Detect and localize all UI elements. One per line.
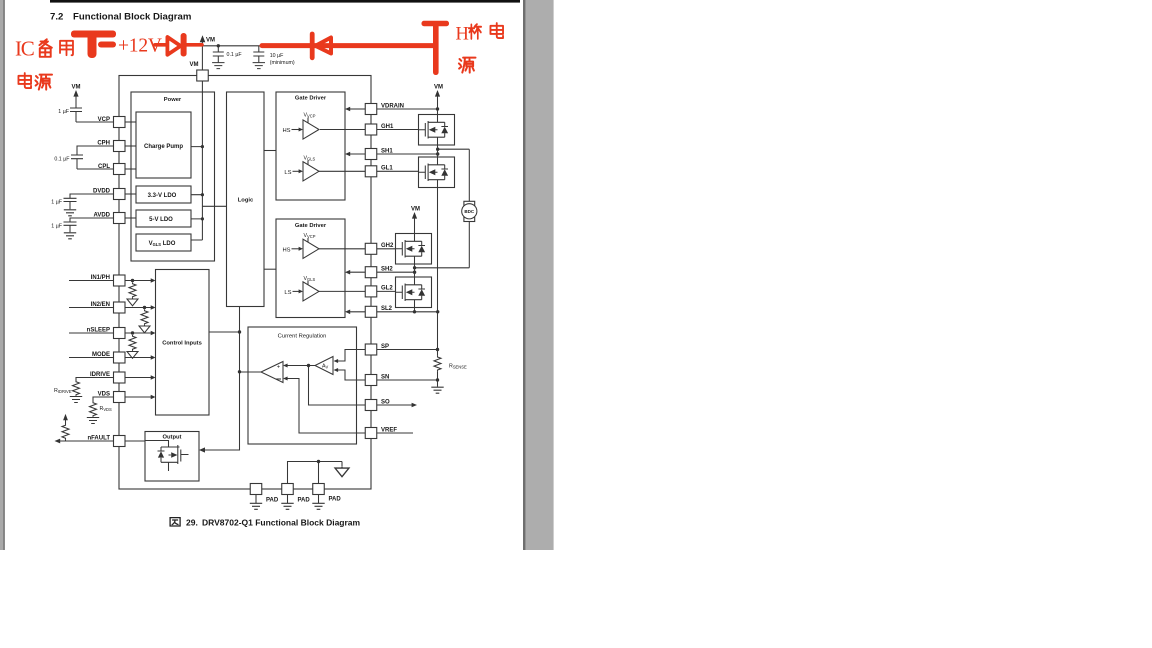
svg-text:VM: VM	[411, 207, 420, 213]
wire nFAULT	[59, 440, 146, 442]
svg-text:VM: VM	[72, 85, 81, 91]
pin CPH	[97, 140, 125, 151]
svg-text:29.: 29.	[186, 518, 198, 528]
svg-text:1 µF: 1 µF	[51, 223, 62, 229]
pin nFAULT	[87, 436, 125, 447]
wire control inputs to node	[209, 331, 240, 333]
svg-text:SH2: SH2	[381, 267, 393, 273]
transistor Q4 low-side 2	[396, 277, 432, 308]
current regulation block	[248, 327, 357, 444]
svg-text:Logic: Logic	[238, 198, 254, 204]
wire VCP to charge pump	[125, 121, 136, 123]
svg-text:PAD: PAD	[266, 498, 279, 504]
red annotation: power text (Chinese)	[18, 73, 52, 90]
resistor pulldown IN1/PH	[129, 283, 136, 298]
wire HS1 to GH1	[320, 129, 419, 131]
svg-text:(minimum): (minimum)	[270, 60, 295, 66]
wire SO	[377, 404, 413, 406]
svg-text:VVCP: VVCP	[304, 113, 316, 119]
viewer gray strip left	[0, 0, 3, 550]
pin SP	[365, 344, 389, 355]
wire SH2	[350, 268, 470, 272]
pin SO	[365, 399, 390, 410]
svg-text:+: +	[277, 365, 280, 371]
ground PAD1	[250, 495, 262, 510]
svg-text:LS: LS	[284, 290, 291, 296]
5-V LDO block	[136, 210, 191, 227]
svg-text:Gate Driver: Gate Driver	[295, 223, 327, 229]
svg-text:10 µF: 10 µF	[270, 53, 284, 59]
wire VDS	[93, 397, 152, 402]
svg-text:Charge Pump: Charge Pump	[144, 144, 183, 150]
pin GH1	[365, 124, 394, 135]
red annotation: battery symbol	[71, 31, 116, 59]
logic block	[227, 92, 265, 307]
wire nSLEEP	[69, 332, 152, 334]
svg-text:0.1 µF: 0.1 µF	[227, 52, 243, 58]
svg-text:GH1: GH1	[381, 124, 394, 130]
svg-text:SP: SP	[381, 344, 389, 350]
capacitor 1uF AVDD	[64, 218, 114, 232]
caption figure number glyph	[170, 518, 180, 526]
output block	[145, 432, 199, 482]
wire VM top node	[202, 42, 262, 71]
wire VDRAIN internal	[350, 108, 366, 110]
pin SH1	[365, 148, 393, 159]
wire SH1	[350, 149, 470, 154]
red annotation: supply source text (Chinese)	[459, 58, 476, 73]
svg-text:VDRAIN: VDRAIN	[381, 103, 404, 109]
svg-text:RVDS: RVDS	[100, 406, 113, 412]
node VM half-bridge 2	[411, 207, 420, 234]
pin PAD2	[282, 484, 311, 504]
svg-text:SO: SO	[381, 399, 390, 405]
svg-text:AVDD: AVDD	[93, 213, 110, 219]
resistor nFAULT pullup	[65, 439, 67, 441]
red annotation: IC backup supply text	[15, 37, 73, 61]
svg-text:Functional Block Diagram: Functional Block Diagram	[73, 11, 191, 22]
ground PAD3	[312, 495, 324, 510]
wire Av output to comparator and SO	[287, 366, 365, 406]
wire MODE	[69, 357, 152, 359]
capacitor 1uF VCP	[70, 108, 114, 122]
svg-text:Control Inputs: Control Inputs	[162, 341, 202, 347]
pin GL2	[365, 286, 393, 297]
pin DVDD	[93, 189, 125, 200]
wire SL2	[350, 308, 438, 312]
svg-text:SN: SN	[381, 374, 389, 380]
op-amp LS2	[303, 282, 319, 301]
op-amp HS1	[303, 120, 319, 139]
svg-text:CPH: CPH	[97, 140, 110, 146]
pin nSLEEP	[87, 328, 125, 339]
wire LS1 to GL1	[319, 170, 419, 172]
wire VREF external	[377, 432, 413, 434]
red annotation: diode D2	[310, 32, 331, 61]
svg-text:AV: AV	[322, 364, 329, 370]
resistor R_SENSE	[437, 350, 439, 356]
pin VDS	[98, 392, 125, 403]
wire Q3 source to Q4 drain	[414, 264, 416, 277]
pin VM	[190, 62, 209, 81]
transistor Q2 low-side 1	[419, 157, 455, 188]
wire GH2	[319, 248, 396, 250]
node VM left (above VCP cap)	[72, 85, 81, 108]
capacitor 0.1uF CPH/CPL	[71, 146, 114, 169]
charge pump block	[136, 112, 191, 178]
wire logic to gate driver 2	[264, 268, 276, 270]
red annotation: diode D1	[155, 33, 202, 57]
pin GL1	[365, 166, 393, 177]
wire comparator output	[240, 371, 262, 373]
pin VDRAIN	[365, 103, 404, 114]
wire SN	[377, 380, 438, 387]
resistor R_VDS	[90, 402, 97, 417]
capacitor 0.1uF top	[213, 52, 224, 62]
transistor nFAULT open-drain	[145, 441, 189, 472]
pin SH2	[365, 267, 393, 278]
svg-text:DRV8702-Q1 Functional Block Di: DRV8702-Q1 Functional Block Diagram	[202, 518, 361, 528]
red annotation: H-bridge supply text (Chinese)	[456, 23, 504, 44]
transistor Q1 high-side 1	[419, 115, 455, 146]
power block	[131, 92, 215, 261]
svg-text:BDC: BDC	[464, 209, 474, 214]
svg-text:GL2: GL2	[381, 286, 393, 292]
svg-text:VGLS: VGLS	[304, 276, 316, 282]
pin PAD3	[313, 484, 342, 503]
pin VCP	[98, 117, 125, 128]
svg-text:GL1: GL1	[381, 166, 393, 172]
svg-text:1 µF: 1 µF	[58, 109, 69, 115]
pin AVDD	[93, 213, 125, 224]
svg-text:Gate Driver: Gate Driver	[295, 96, 327, 102]
op-amp Av	[315, 357, 333, 375]
svg-text:VGLS LDO: VGLS LDO	[149, 241, 176, 247]
svg-text:HS: HS	[282, 128, 290, 134]
wire GL2	[319, 290, 396, 292]
svg-text:HS: HS	[282, 247, 290, 253]
resistor pulldown nSLEEP	[129, 335, 136, 350]
pin MODE	[92, 352, 125, 363]
transistor Q3 high-side 2	[396, 234, 432, 265]
wire VREF to comparator	[287, 379, 365, 434]
svg-text:7.2: 7.2	[50, 11, 63, 22]
pin CPL	[98, 164, 125, 175]
svg-text:DVDD: DVDD	[93, 189, 111, 195]
gate driver 1 block	[276, 92, 345, 200]
chip outline	[119, 76, 371, 490]
svg-text:CPL: CPL	[98, 164, 110, 170]
red annotation: wire to H-bridge supply	[262, 43, 434, 48]
svg-text:SL2: SL2	[381, 306, 393, 312]
svg-text:VREF: VREF	[381, 427, 397, 433]
top page rule	[50, 0, 520, 3]
wire low-side source rail	[437, 188, 439, 350]
svg-text:SH1: SH1	[381, 148, 393, 154]
wire Q1 source to Q2 drain	[437, 145, 439, 157]
svg-text:VGLS: VGLS	[304, 156, 316, 162]
wire SP to Av	[338, 350, 366, 362]
red annotation: H-bridge supply bar	[422, 21, 450, 75]
wire CPH to charge pump	[125, 145, 136, 147]
wire top edge to VDRAIN column	[377, 108, 438, 110]
wire AVDD to 5-V LDO	[125, 217, 136, 219]
pin GH2	[365, 243, 394, 254]
capacitor 10uF top	[253, 52, 264, 62]
svg-text:3.3-V LDO: 3.3-V LDO	[148, 193, 177, 199]
svg-text:VM: VM	[190, 62, 199, 68]
pin PAD1	[250, 484, 279, 504]
svg-text:LS: LS	[284, 170, 291, 176]
pin IN2/EN	[91, 302, 125, 313]
control inputs block	[156, 270, 210, 416]
svg-text:VM: VM	[434, 85, 443, 91]
svg-text:H: H	[456, 25, 469, 45]
svg-text:Output: Output	[163, 435, 182, 441]
wire IN2/EN	[69, 307, 152, 309]
svg-text:RIDRIVE: RIDRIVE	[54, 388, 72, 394]
wire logic to gate driver 1	[264, 150, 276, 152]
svg-text:Current Regulation: Current Regulation	[278, 334, 327, 340]
wire DVDD to 3.3-V LDO	[125, 193, 136, 195]
resistor pulldown IN2/EN	[141, 310, 148, 325]
wire IN1/PH	[69, 280, 152, 282]
svg-text:VM: VM	[206, 38, 215, 44]
ground PAD2	[281, 495, 293, 510]
wire CPL to charge pump	[125, 168, 136, 170]
node VM half-bridge 1	[434, 85, 443, 115]
svg-text:Power: Power	[164, 97, 182, 103]
capacitor 1uF DVDD	[64, 194, 114, 209]
node VM arrow	[200, 35, 206, 42]
op-amp LS1	[303, 162, 319, 181]
resistor R_IDRIVE	[73, 381, 80, 396]
gate driver 2 block	[276, 219, 345, 318]
viewer gray scrollbar band right	[523, 0, 526, 550]
wire pads to logic ground	[288, 462, 343, 484]
pin IDRIVE	[90, 372, 125, 383]
wire SP	[377, 349, 438, 351]
motor BDC	[462, 149, 477, 268]
svg-text:VVCP: VVCP	[304, 233, 316, 239]
3.3-V LDO block	[136, 186, 191, 203]
VGLS LDO block	[136, 234, 191, 251]
pin VREF	[365, 427, 397, 438]
wire VM feed to charge pump / LDOs	[191, 81, 203, 240]
svg-text:0.1 µF: 0.1 µF	[54, 156, 70, 162]
svg-text:GH2: GH2	[381, 243, 394, 249]
svg-text:PAD: PAD	[298, 498, 311, 504]
svg-text:IC: IC	[15, 37, 34, 61]
wire power to logic	[202, 205, 226, 207]
svg-text:1 µF: 1 µF	[51, 199, 62, 205]
svg-text:RSENSE: RSENSE	[449, 364, 467, 370]
svg-text:PAD: PAD	[329, 497, 342, 503]
comparator	[261, 362, 283, 383]
op-amp HS2	[303, 239, 319, 258]
svg-text:VCP: VCP	[98, 117, 110, 123]
ground sense	[431, 387, 443, 393]
svg-text:5-V LDO: 5-V LDO	[149, 217, 173, 223]
pin IN1/PH	[91, 275, 125, 286]
wire IDRIVE	[76, 378, 152, 381]
pin SN	[365, 374, 389, 385]
logic ground symbol	[335, 467, 349, 477]
pin SL2	[365, 306, 392, 317]
wire logic to output node	[204, 307, 239, 451]
wire SN to Av	[338, 370, 366, 380]
